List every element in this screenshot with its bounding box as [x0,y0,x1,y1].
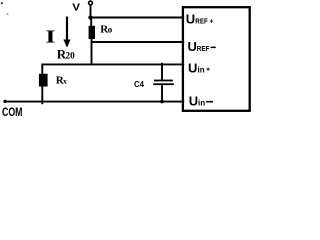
svg-text:I: I [45,27,55,47]
terminal V (open circle) [89,1,93,5]
resistor R0 (filled body) [89,26,95,39]
svg-text:in: in [198,66,205,75]
wire: UREF- rail to converter box [92,41,185,43]
speck (scan noise) [7,13,9,15]
svg-text:COM: COM [2,105,23,119]
wire: COM rail to converter box [5,101,184,103]
wire: Uin+ rail (Rx corner to converter box) [41,63,184,65]
wire: V terminal down to UREF+ junction [90,5,92,18]
svg-text:V: V [72,2,80,14]
svg-text:U: U [186,12,195,27]
pin label UREF- [188,39,216,54]
pin label Uin- [189,93,213,108]
svg-text:REF: REF [195,17,208,26]
pin label Uin+ [188,61,210,76]
label R20 [57,46,75,61]
terminal COM (filled dot) [3,100,6,103]
svg-text:C4: C4 [134,80,145,89]
label Rx [56,75,67,87]
node: junction C4 / COM rail [160,100,164,104]
wire: UREF+ rail to converter box [91,17,185,19]
wire: R0 bottom to UREF- junction [91,39,93,42]
svg-text:U: U [188,39,197,54]
resistor Rx (filled body) [39,74,48,87]
pin label UREF+ [186,12,215,27]
svg-text:o: o [108,24,113,34]
capacitor C4 top lead [161,63,163,81]
svg-text:+: + [209,17,214,26]
svg-text:+: + [206,67,210,74]
svg-text:U: U [189,93,198,108]
wire: corner down to Rx top [41,64,43,75]
node: junction V / R0 / UREF+ [88,15,92,19]
svg-text:REF: REF [197,44,210,53]
svg-text:in: in [198,98,205,107]
speck (scan noise, top-left) [1,2,3,4]
current arrow I (downwards) [63,17,70,48]
wire: Rx bottom to COM rail (with small overshoot) [41,86,43,104]
svg-text:x: x [63,77,67,86]
svg-text:U: U [188,61,197,76]
svg-text:20: 20 [66,51,76,61]
wire: junction down to R0 top [90,18,92,27]
capacitor C4 plates [153,80,174,86]
wire: UREF- junction down to Uin+ rail [91,42,93,64]
A/D converter box [183,7,250,111]
capacitor C4 bottom lead [161,85,163,102]
label R0 [100,23,113,35]
